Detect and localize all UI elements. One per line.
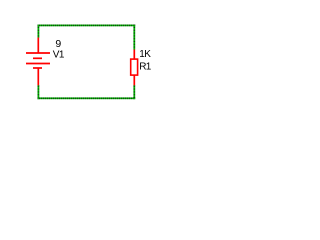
svg-text:R1: R1 bbox=[139, 61, 152, 72]
svg-text:1K: 1K bbox=[139, 49, 151, 60]
battery V1 long plate 2 bbox=[26, 63, 50, 65]
battery V1 short plate 2 bbox=[33, 67, 42, 69]
svg-text:9: 9 bbox=[55, 38, 61, 50]
battery V1 short plate 1 bbox=[33, 57, 42, 59]
battery V1 bottom lead bbox=[37, 68, 39, 85]
resistor value label 1K bbox=[139, 49, 151, 60]
battery V1 long plate 1 bbox=[26, 52, 50, 54]
wire bottom-left vertical segment (battery - terminal to bottom-left corner) bbox=[38, 85, 40, 99]
resistor R1 top lead bbox=[133, 50, 135, 60]
wire bottom-right vertical segment (bottom-right corner to resistor bottom lead) bbox=[133, 85, 135, 99]
battery value label 9 bbox=[55, 38, 61, 50]
resistor R1 (box style, red) bbox=[131, 50, 138, 86]
resistor reference label R1 bbox=[139, 61, 152, 72]
resistor R1 body bbox=[131, 59, 138, 75]
battery V1 top lead bbox=[37, 38, 39, 53]
wire top horizontal segment bbox=[38, 25, 136, 27]
battery V1 (9 V source, symbol in red) bbox=[26, 38, 50, 86]
battery reference label V1 bbox=[53, 50, 65, 61]
resistor R1 bottom lead bbox=[133, 76, 135, 86]
wire bottom horizontal segment bbox=[38, 97, 136, 99]
wire top-left vertical segment (battery + terminal to top-left corner) bbox=[38, 25, 40, 38]
wire top-right vertical segment (top-right corner to resistor top lead) bbox=[133, 25, 135, 50]
svg-text:V1: V1 bbox=[53, 50, 65, 61]
